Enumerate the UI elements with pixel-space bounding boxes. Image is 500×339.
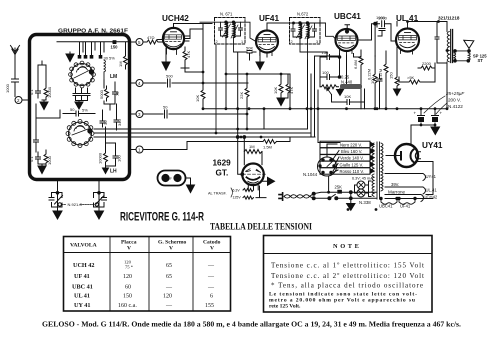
wire UY41 right to heater <box>417 162 434 174</box>
svg-text:GT.: GT. <box>216 169 229 178</box>
svg-text:10K: 10K <box>195 95 200 102</box>
wire term3 50 <box>143 113 247 115</box>
svg-text:30 5%: 30 5% <box>104 56 116 61</box>
electrolytic C1 <box>418 109 425 125</box>
res 0.22M <box>373 56 377 109</box>
svg-text:30: 30 <box>103 120 108 125</box>
ground osc b <box>106 163 116 166</box>
svg-text:3: 3 <box>316 40 318 44</box>
resistor 1M eye <box>244 150 262 154</box>
svg-text:—: — <box>207 263 215 269</box>
svg-text:Tensione c.c. al 2º elettrolit: Tensione c.c. al 2º elettrolitico: 120 V… <box>271 272 424 280</box>
svg-text:rete 125 Volt.: rete 125 Volt. <box>269 304 301 310</box>
svg-text:UBC41: UBC41 <box>334 12 361 21</box>
svg-text:10000: 10000 <box>47 86 52 98</box>
volume pot <box>320 85 339 89</box>
rotary switch S2 <box>69 122 92 145</box>
RF unit box <box>30 35 130 180</box>
terminal 3 <box>130 113 137 115</box>
svg-text:47Ω: 47Ω <box>147 35 154 40</box>
svg-text:6: 6 <box>210 294 213 300</box>
svg-text:50: 50 <box>27 140 32 145</box>
svg-text:—: — <box>207 285 215 291</box>
svg-text:0.1: 0.1 <box>29 156 34 162</box>
svg-text:120: 120 <box>163 294 172 300</box>
svg-text:1.5M: 1.5M <box>263 145 272 150</box>
svg-text:2: 2 <box>17 98 20 103</box>
voltage tap verde <box>320 155 370 161</box>
svg-text:UBC 41: UBC 41 <box>72 284 93 291</box>
ground electrolytics <box>411 125 440 135</box>
cap 100 ul <box>377 74 382 109</box>
svg-text:10000: 10000 <box>98 152 103 164</box>
terminal 4 <box>130 82 137 84</box>
AVC bus <box>226 74 290 109</box>
svg-text:+: + <box>414 111 417 116</box>
svg-text:—: — <box>165 303 173 309</box>
cap 340 <box>114 115 119 127</box>
tube UF41 <box>256 31 278 53</box>
svg-text:* Tens, alla placca del triodo: * Tens, alla placca del triodo oscillato… <box>271 282 423 290</box>
svg-text:1M: 1M <box>118 61 123 67</box>
cap 10K tone <box>332 89 365 109</box>
svg-text:50: 50 <box>70 107 75 112</box>
table rows <box>72 262 94 309</box>
wire UY41 plate up <box>410 125 412 145</box>
mains twisted cord <box>284 194 313 199</box>
tap arrows <box>370 142 374 173</box>
left col res 1000 <box>44 150 48 166</box>
wire term2 to box <box>22 99 30 101</box>
svg-text:5: 5 <box>138 40 141 45</box>
svg-text:500: 500 <box>166 74 173 79</box>
svg-text:UY41: UY41 <box>426 174 437 179</box>
tube UL41 <box>396 29 419 52</box>
svg-text:F: F <box>170 176 173 181</box>
svg-text:UL 41: UL 41 <box>74 293 90 300</box>
svg-text:200 V.: 200 V. <box>448 98 461 103</box>
svg-text:UCH 42: UCH 42 <box>73 262 94 269</box>
dark cap block <box>340 84 362 89</box>
svg-text:N. 671: N. 671 <box>220 12 233 17</box>
resistor 22K <box>245 84 249 101</box>
resistor 10Kb <box>279 80 283 96</box>
cap 50K grid <box>247 51 252 61</box>
voltage table box <box>64 237 231 312</box>
svg-text:1000: 1000 <box>5 83 10 93</box>
svg-text:+: + <box>440 111 443 116</box>
cap 75 <box>113 88 118 98</box>
svg-text:10K: 10K <box>344 94 351 99</box>
svg-text:V: V <box>169 246 173 252</box>
eye heater resistor <box>243 186 254 192</box>
svg-text:Marrone: Marrone <box>388 190 406 195</box>
tuning gang C1 <box>49 180 63 212</box>
svg-text:47K: 47K <box>186 51 191 58</box>
svg-text:6.8M: 6.8M <box>353 60 358 69</box>
svg-text:0.47M: 0.47M <box>378 69 383 80</box>
left wires <box>36 61 60 152</box>
res 0.47M <box>384 56 388 109</box>
svg-text:6.3V; 45 mA: 6.3V; 45 mA <box>352 177 373 181</box>
mains plug <box>279 193 283 200</box>
svg-text:10K: 10K <box>273 87 278 94</box>
electrolytic C2 <box>432 109 439 125</box>
bus H2 <box>94 133 311 137</box>
svg-text:N.672: N.672 <box>297 12 309 17</box>
svg-text:5000: 5000 <box>99 89 104 99</box>
box interior top wire <box>57 42 128 52</box>
left col cap 0.1 <box>36 85 41 98</box>
terminal 1 <box>130 149 137 151</box>
svg-text:150: 150 <box>123 294 132 300</box>
svg-text:125V: 125V <box>233 196 242 200</box>
pilot lamp holder <box>158 171 186 186</box>
svg-text:LH: LH <box>110 169 117 175</box>
svg-text:100: 100 <box>117 155 122 162</box>
svg-text:UBC41: UBC41 <box>379 204 393 209</box>
svg-text:Nero 220 V.: Nero 220 V. <box>340 142 362 147</box>
svg-text:65: 65 <box>166 274 172 280</box>
svg-text:1000: 1000 <box>376 15 386 20</box>
svg-text:75 *: 75 * <box>125 265 134 270</box>
resistor 5000 <box>105 86 109 101</box>
capacitor 500 <box>168 79 171 87</box>
svg-text:39V.: 39V. <box>391 182 399 187</box>
svg-text:150: 150 <box>322 50 329 55</box>
heater wire UCH <box>385 195 433 202</box>
wire top bus UCH42 to N.671 <box>174 24 213 28</box>
svg-text:340: 340 <box>117 119 122 126</box>
svg-text:150: 150 <box>111 45 119 50</box>
svg-text:1000: 1000 <box>47 155 52 165</box>
svg-text:50: 50 <box>163 105 168 110</box>
svg-text:Rosso 110 V.: Rosso 110 V. <box>340 169 364 174</box>
IF transformer N.672 <box>290 18 321 45</box>
wire UL41 plate to OT <box>408 22 448 31</box>
bus verticals right <box>308 56 341 143</box>
resistor 1.5M <box>263 140 277 144</box>
svg-text:>5K: >5K <box>407 75 415 80</box>
res 5K <box>406 80 423 84</box>
svg-text:Tensione c.c. al 1º elettrolit: Tensione c.c. al 1º elettrolitico: 155 V… <box>271 262 424 270</box>
svg-text:GELOSO - Mod. G 114/R. Onde me: GELOSO - Mod. G 114/R. Onde medie da 180… <box>42 321 461 329</box>
ground 10Kb <box>277 96 285 106</box>
svg-text:50K: 50K <box>246 46 253 51</box>
svg-text:NOTE: NOTE <box>333 243 362 250</box>
left col cap 50 <box>34 135 39 147</box>
capacitor 1000 coupling UL41 <box>382 21 396 41</box>
svg-text:3: 3 <box>138 112 141 117</box>
ground mains <box>349 191 352 194</box>
ground 150 ul <box>394 89 401 95</box>
ground osc sect <box>66 52 74 62</box>
svg-text:RICEVITORE G. 114-R: RICEVITORE G. 114-R <box>120 210 204 224</box>
bus H3 <box>94 136 315 138</box>
UBC41 grid top cap <box>345 25 350 31</box>
left col resistor 10000 <box>44 84 48 100</box>
svg-text:100: 100 <box>322 70 329 75</box>
svg-text:TABELLA DELLE TENSIONI: TABELLA DELLE TENSIONI <box>210 222 312 233</box>
wire term1 <box>143 137 290 150</box>
svg-text:V: V <box>210 246 214 252</box>
capacitor 1000 plate <box>377 22 385 37</box>
svg-text:25+25μF: 25+25μF <box>445 91 465 96</box>
svg-text:ST: ST <box>478 58 484 63</box>
wire term4 500 <box>143 82 248 84</box>
svg-text:UF41: UF41 <box>400 204 411 209</box>
left col cap 0.1b <box>36 152 41 164</box>
heater resistor UF <box>399 200 415 205</box>
cap across OT <box>435 22 447 64</box>
svg-text:UCH42: UCH42 <box>162 14 189 23</box>
coil L1 <box>104 60 106 80</box>
resistor 2200 <box>418 66 435 70</box>
svg-text:321/11218: 321/11218 <box>438 16 460 21</box>
voltage tap bleu <box>320 148 370 154</box>
svg-text:155: 155 <box>205 303 214 309</box>
voltage tap nero <box>320 141 370 147</box>
IF transformer N.671 <box>215 18 246 45</box>
capacitor 1000 ant <box>12 79 19 97</box>
wire term5 tube <box>162 41 164 43</box>
UBC pin verticals <box>340 54 347 84</box>
svg-text:UF41: UF41 <box>259 14 279 23</box>
voltage tap giallo <box>320 161 370 167</box>
svg-text:V: V <box>127 246 131 252</box>
wire eye drops <box>241 136 261 138</box>
svg-text:—: — <box>207 274 215 280</box>
trimmer caps row <box>80 42 101 55</box>
mains top wire <box>314 192 337 194</box>
rotary switch S1 <box>71 64 93 86</box>
svg-text:6.3V: 6.3V <box>233 189 241 193</box>
terminal 2 <box>15 97 22 104</box>
resistor 25K block <box>337 190 342 194</box>
res 10000 osc <box>104 149 108 166</box>
bus H1 <box>94 128 307 130</box>
cap 100 ubc <box>320 75 340 80</box>
cap 50 5% <box>63 111 95 116</box>
svg-text:75: 75 <box>115 91 120 96</box>
svg-text:1: 1 <box>138 148 141 153</box>
svg-text:150: 150 <box>389 72 394 79</box>
lamp A <box>357 181 365 189</box>
tube UBC41 <box>336 29 358 51</box>
svg-text:100: 100 <box>370 77 375 84</box>
selector N.1044 <box>318 157 337 176</box>
B+ bus <box>203 63 447 129</box>
heater wire UY <box>385 174 426 181</box>
arrow eye output <box>262 177 275 185</box>
tube UY41 <box>395 144 418 167</box>
svg-text:LM: LM <box>110 74 117 80</box>
svg-text:N.1044: N.1044 <box>303 172 318 177</box>
svg-text:1629: 1629 <box>213 159 232 168</box>
res 6.8M <box>359 50 363 109</box>
ground pot <box>337 89 344 96</box>
antenna <box>11 46 20 63</box>
grid cap 47A wire <box>181 44 203 72</box>
resistor 47ohm grid <box>143 40 163 44</box>
mains switch bottom <box>314 197 329 199</box>
capacitor 150 <box>113 40 117 44</box>
ground UCH42 cathode <box>162 48 170 70</box>
res 150 ul <box>395 54 399 89</box>
svg-text:25K: 25K <box>335 184 343 189</box>
ground caps row <box>75 102 83 109</box>
tuning gang C2 <box>94 180 107 212</box>
tube 1629 magic eye <box>242 164 264 186</box>
wire antenna down <box>14 62 16 79</box>
caps row below S1 <box>73 88 78 101</box>
voltage tap rosso <box>320 168 370 174</box>
osc wires <box>103 80 117 151</box>
svg-text:0.1: 0.1 <box>29 89 34 95</box>
svg-text:N.338: N.338 <box>359 200 371 205</box>
cap 100 osc <box>113 151 118 163</box>
UBC41 plate riser <box>358 24 380 40</box>
selector wires <box>327 144 339 192</box>
svg-text:VALVOLA: VALVOLA <box>70 243 97 249</box>
lamp B <box>357 189 365 197</box>
output transformer <box>447 22 456 66</box>
ground left pair <box>40 100 48 110</box>
capacitor 50 <box>165 110 168 118</box>
svg-text:UY41: UY41 <box>422 141 443 150</box>
lamp wires <box>355 181 372 197</box>
svg-text:1: 1 <box>241 40 243 44</box>
svg-text:5%: 5% <box>82 108 88 113</box>
svg-text:N.4122: N.4122 <box>448 104 463 109</box>
resistor 47K b <box>286 80 290 96</box>
svg-text:UY 41: UY 41 <box>74 302 90 309</box>
svg-text:1M: 1M <box>249 144 255 149</box>
resistor 1M box <box>124 42 128 69</box>
svg-text:UL.41: UL.41 <box>426 188 438 193</box>
tube UCH42 <box>163 28 184 49</box>
svg-text:AL TRASF.: AL TRASF. <box>208 192 227 196</box>
NOTE box <box>264 236 433 313</box>
cap 150 ubc <box>320 55 340 60</box>
ground UF41 <box>256 52 264 70</box>
power transformer core <box>372 142 383 199</box>
heater resistor UBC <box>381 200 397 205</box>
svg-text:60: 60 <box>125 285 131 291</box>
svg-text:4: 4 <box>138 81 141 86</box>
cap 30 osc <box>100 117 105 127</box>
wire tube UCH42 right to N671 <box>184 24 203 39</box>
wire lamp to ground <box>186 178 191 185</box>
table headers <box>70 240 221 252</box>
terminal 5 <box>130 41 137 43</box>
ground left b <box>38 164 46 174</box>
svg-text:Giallo 125 V.: Giallo 125 V. <box>340 162 364 167</box>
heater wire UL <box>385 187 426 194</box>
svg-text:120: 120 <box>123 274 132 280</box>
resistor 10K agc <box>201 29 205 109</box>
svg-text:65: 65 <box>166 263 172 269</box>
svg-text:—: — <box>165 285 173 291</box>
svg-text:22K: 22K <box>239 92 244 99</box>
wires UBC-UL area <box>320 22 435 87</box>
svg-text:2: 2 <box>216 40 218 44</box>
speaker <box>464 40 474 48</box>
svg-text:Bleu 160 V.: Bleu 160 V. <box>341 149 362 154</box>
svg-text:2: 2 <box>291 40 293 44</box>
svg-text:47K: 47K <box>289 87 294 94</box>
svg-text:160 c.a.: 160 c.a. <box>118 303 137 309</box>
svg-text:Verde 140 V.: Verde 140 V. <box>340 156 364 161</box>
svg-text:2200: 2200 <box>422 61 432 66</box>
svg-text:UF 41: UF 41 <box>74 273 90 280</box>
resistor 47K screen <box>183 47 187 64</box>
